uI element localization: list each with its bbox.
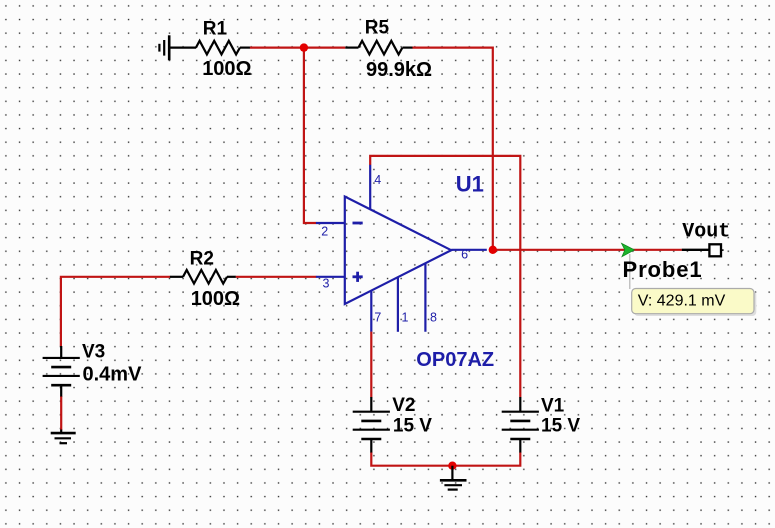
junction dot (output node) xyxy=(489,246,497,254)
resistor R1 xyxy=(196,41,250,55)
pin 7 stub xyxy=(370,290,372,331)
probe tooltip shadow xyxy=(634,291,756,316)
wire (R1 to R5 through junction) xyxy=(250,46,345,48)
svg-text:6: 6 xyxy=(461,248,468,262)
pin 6 output wire to probe/terminal xyxy=(493,249,682,251)
svg-text:7: 7 xyxy=(374,311,381,325)
pin 8 stub xyxy=(424,263,426,332)
battery V1 xyxy=(502,397,539,453)
wire (pin 7 down to V2) xyxy=(370,332,372,398)
wire (R5 output right and down to output node) xyxy=(413,48,493,250)
svg-text:R2: R2 xyxy=(190,249,214,270)
pin 1 stub xyxy=(397,277,399,332)
resistor R5 xyxy=(345,41,412,55)
wire (pin 4 up, across, and down to V1 battery) xyxy=(370,156,520,398)
ground (top-left, sideways) xyxy=(159,35,169,60)
svg-text:1: 1 xyxy=(402,311,409,325)
svg-text:4: 4 xyxy=(374,173,381,187)
probe arrow (green) xyxy=(622,243,635,256)
pin 2 stub xyxy=(316,222,345,224)
battery V3 xyxy=(43,346,80,397)
pin 3 stub xyxy=(316,276,345,278)
resistor R2 xyxy=(170,270,236,284)
output terminal square (Vout) xyxy=(709,244,721,256)
svg-text:15 V: 15 V xyxy=(393,416,432,437)
ground (bottom center) xyxy=(440,466,467,490)
pin 4 stub xyxy=(369,165,371,210)
wire (V3 up and across to R2) xyxy=(61,277,170,347)
svg-text:U1: U1 xyxy=(456,172,484,197)
svg-text:0.4mV: 0.4mV xyxy=(83,364,143,386)
probe connector line (gray) xyxy=(629,254,631,289)
pin 6 stub xyxy=(451,249,487,251)
svg-text:V1: V1 xyxy=(541,396,565,417)
wire (bottom supply rail V2 to V1) xyxy=(371,453,520,466)
svg-text:100Ω: 100Ω xyxy=(191,288,240,310)
svg-text:99.9kΩ: 99.9kΩ xyxy=(366,59,432,81)
wire (R2 to pin 3) xyxy=(236,276,316,278)
wire (ground to R1) xyxy=(170,46,196,48)
svg-text:15 V: 15 V xyxy=(541,416,580,437)
wire (junction down to pin 2) xyxy=(304,48,316,223)
svg-text:Vout: Vout xyxy=(682,221,730,244)
wire (black, to output terminal) xyxy=(682,249,709,251)
svg-text:100Ω: 100Ω xyxy=(202,58,251,80)
terminal nub xyxy=(722,249,724,251)
battery V2 xyxy=(353,397,390,453)
svg-text:3: 3 xyxy=(323,277,330,291)
svg-text:V3: V3 xyxy=(82,342,105,363)
svg-text:V: 429.1 mV: V: 429.1 mV xyxy=(638,293,726,310)
op-amp U1 xyxy=(345,197,451,305)
probe tooltip box xyxy=(632,289,754,314)
svg-text:8: 8 xyxy=(430,311,437,325)
wire (V3 down to ground) xyxy=(60,397,62,431)
junction dot (bottom rail to ground) xyxy=(448,462,456,470)
svg-text:2: 2 xyxy=(321,224,328,238)
ground (below V3) xyxy=(51,430,76,444)
svg-text:R1: R1 xyxy=(203,19,228,40)
junction dot (R1/R5/feedback node) xyxy=(300,43,308,51)
svg-text:V2: V2 xyxy=(392,395,415,416)
svg-text:OP07AZ: OP07AZ xyxy=(416,349,494,371)
svg-text:R5: R5 xyxy=(365,17,390,38)
svg-text:Probe1: Probe1 xyxy=(623,257,703,282)
